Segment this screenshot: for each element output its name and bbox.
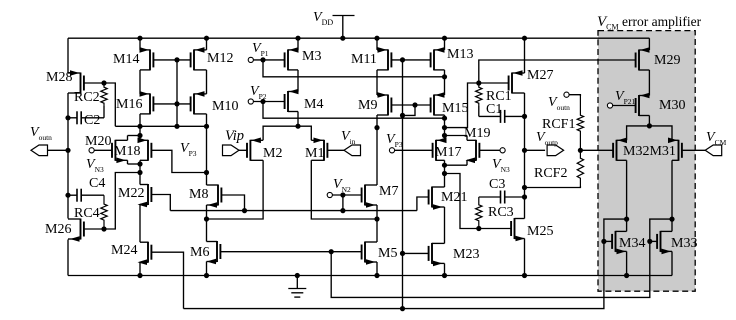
svg-text:VP2: VP2 (250, 84, 267, 101)
svg-text:M32M31: M32M31 (623, 144, 676, 159)
svg-text:M17: M17 (435, 145, 461, 160)
svg-text:M12: M12 (207, 51, 233, 66)
svg-text:M18: M18 (114, 144, 140, 159)
transistor M19 (466, 140, 480, 163)
junction gnd-M24 (137, 273, 142, 278)
svg-text:C3: C3 (489, 177, 505, 192)
wire M21-M23 link (444, 207, 446, 243)
wire M11-M13 gates (392, 59, 430, 61)
transistor M31 (668, 138, 682, 161)
svg-text:VN2: VN2 (333, 177, 351, 194)
svg-text:M28: M28 (46, 70, 72, 85)
transistor M2 (247, 138, 263, 161)
resistor RC1 (476, 85, 482, 107)
wire pair sources (627, 126, 672, 140)
wire M29-M30 (648, 70, 650, 96)
svg-text:M1: M1 (305, 146, 324, 161)
resistor RC2 (101, 85, 107, 107)
wire sense to M32 gate (580, 149, 612, 151)
wire M34 diode loop (604, 219, 627, 241)
svg-text:M34: M34 (619, 236, 645, 251)
svg-text:M11: M11 (351, 52, 377, 67)
wire M2 drain fold (207, 160, 264, 219)
svg-text:M7: M7 (379, 184, 398, 199)
node Voutn (65, 148, 70, 153)
wire M14-M12 gates (154, 59, 190, 61)
wire M19 gate-VN3 (480, 149, 500, 151)
wire M13-M15 cascode (444, 70, 446, 95)
svg-text:M29: M29 (654, 53, 680, 68)
node sense (578, 148, 583, 153)
svg-text:M5: M5 (378, 246, 397, 261)
junction M34 diode (624, 217, 629, 222)
wire pair bottom jumper (128, 163, 141, 165)
svg-text:M24: M24 (111, 243, 137, 258)
node M30 drain (647, 123, 652, 128)
junction RCF2-col (522, 185, 527, 190)
wire M28 drain / Voutn column (67, 93, 69, 219)
node Voutp (522, 148, 527, 153)
junction bottom jumper R (442, 163, 447, 168)
svg-text:C2: C2 (84, 113, 100, 128)
svg-text:RC4: RC4 (74, 206, 100, 221)
svg-text:M21: M21 (441, 190, 467, 205)
junction M18gate-col (204, 170, 209, 175)
junction rail-M12 (204, 36, 209, 41)
junction C3-col (522, 194, 527, 199)
svg-text:M6: M6 (190, 245, 209, 260)
transistor M16 (140, 91, 154, 114)
transistor M10 (191, 91, 207, 114)
node fold left (204, 216, 209, 221)
capacitor C3 (479, 191, 525, 204)
wire M27-M25 outp column (524, 93, 526, 219)
svg-text:M9: M9 (358, 98, 377, 113)
transistor M8 (207, 185, 222, 208)
wire M4 drain-tail (297, 112, 299, 127)
wire M24 gate riser (152, 252, 184, 308)
wire M1 gate-Vin (328, 149, 344, 151)
wire M14-M16 cascode (139, 70, 141, 94)
terminal VP21 (607, 103, 612, 108)
svg-text:VP1: VP1 (252, 41, 269, 58)
svg-text:M33: M33 (671, 236, 697, 251)
node C2-left (65, 115, 70, 120)
wire Voutp (525, 149, 546, 151)
wire M28 gate (84, 82, 104, 84)
resistor RC3 (476, 197, 482, 229)
node tail (295, 124, 300, 129)
wire W2 feedback (184, 241, 604, 308)
wire M26 gate (84, 228, 104, 230)
wire M9-M7 drains (376, 115, 378, 185)
junction ground-rail (295, 273, 300, 278)
wire M26 gate riser to nodeB (104, 173, 140, 230)
VCM error amplifier box (598, 31, 695, 292)
wire VP2 (253, 101, 284, 103)
wire pair bottom jumper R (445, 164, 468, 166)
junction M33 diode (669, 217, 674, 222)
svg-text:M14: M14 (113, 52, 139, 67)
wire M1 drain fold (311, 160, 377, 219)
capacitor C4 (68, 189, 104, 202)
resistor RCF2 (577, 150, 583, 186)
wire M21 gate riser (417, 197, 428, 211)
junction rail-M3 (295, 36, 300, 41)
junction gnd-M23 (442, 273, 447, 278)
junction M23 gate-biasV (400, 251, 405, 256)
wire M27 source-rail (524, 38, 526, 73)
node fold right (374, 216, 379, 221)
transistor M24 (138, 242, 152, 265)
junction VP2wire (442, 116, 447, 121)
transistor M5 (362, 242, 377, 265)
resistor RC4 (101, 195, 107, 229)
node M34 gate (601, 239, 606, 244)
wire Voutn (48, 149, 69, 151)
terminal VN3 left (89, 148, 94, 153)
svg-text:VCM error amplifier: VCM error amplifier (597, 14, 702, 32)
wire M22 gate riser (152, 195, 171, 211)
terminal Vip (223, 145, 240, 156)
junction rail-M27 (522, 36, 527, 41)
transistor M30 (636, 93, 650, 116)
wire M25 gate (479, 228, 511, 230)
transistor M25 (511, 218, 525, 241)
wire M28 gate comp riser (104, 83, 115, 126)
node VP1 (260, 57, 265, 62)
transistor M23 (429, 243, 445, 266)
wire M8 gate riser (222, 195, 245, 211)
junction biasV-W2 (400, 306, 405, 311)
junction nodeA2-col (374, 125, 379, 130)
wire M27-M29 gates (479, 60, 635, 83)
svg-text:M4: M4 (304, 97, 323, 112)
svg-text:VP3: VP3 (180, 141, 197, 158)
wire M3 source-rail (297, 38, 299, 50)
transistor M7 (362, 185, 377, 208)
junction gates row2 (174, 101, 179, 106)
svg-text:RCF2: RCF2 (534, 166, 567, 181)
wire VP3 riser left (176, 60, 178, 126)
wire M22-M24 link (139, 205, 141, 243)
transistor M29 (636, 47, 650, 70)
VDD bar (333, 15, 355, 17)
junction rail-M13 (442, 36, 447, 41)
svg-text:Voutp: Voutp (536, 130, 558, 147)
wire M28 source to rail (67, 38, 69, 73)
wire M33 source-ground (671, 251, 673, 275)
wire M13 source-rail (444, 38, 446, 50)
junction VDD-rail (340, 36, 345, 41)
wire M8-M6 link (206, 205, 208, 242)
junction CMFB riser (329, 249, 334, 254)
transistor M1 (311, 138, 327, 161)
terminal Voutp (547, 145, 564, 156)
junction top jumper (137, 133, 142, 138)
node B right (442, 171, 447, 176)
junction biasV-row2R (400, 113, 405, 118)
svg-text:Vin: Vin (341, 129, 356, 146)
transistor M13 (431, 47, 445, 70)
top VDD rail (68, 37, 649, 39)
wire Voutn sense (569, 95, 580, 96)
svg-text:M8: M8 (189, 187, 208, 202)
svg-text:RC3: RC3 (488, 205, 514, 220)
wire M23 source-ground (444, 263, 446, 275)
transistor M12 (191, 47, 207, 70)
svg-text:VCM: VCM (706, 130, 727, 147)
wire VP3-M17 gate (395, 149, 433, 151)
junction gates row1 R (400, 57, 405, 62)
transistor M28 (68, 70, 84, 93)
transistor M18 (138, 138, 152, 161)
junction gates row1 (174, 57, 179, 62)
capacitor C2 (68, 111, 104, 124)
wire M25 source-ground (524, 239, 526, 276)
transistor M22 (138, 184, 152, 207)
node VN2 (340, 192, 345, 197)
transistor M33 (657, 231, 672, 254)
transistor M20 (112, 140, 128, 163)
wire RCF2 return (525, 186, 581, 188)
wire M31 gate-VCM (682, 149, 705, 151)
transistor M15 (431, 92, 445, 115)
svg-text:Vip: Vip (225, 128, 244, 144)
svg-text:VN3: VN3 (492, 157, 510, 174)
junction rail-M14 (137, 36, 142, 41)
wire M16 drain to pair top (139, 114, 141, 140)
wire M17-M21 link (444, 160, 446, 187)
transistor M14 (140, 47, 154, 70)
node M26 gate (101, 226, 106, 231)
svg-text:M20: M20 (85, 134, 111, 149)
wire M27 gate (479, 82, 508, 84)
svg-text:M23: M23 (453, 247, 479, 262)
transistor M9 (377, 92, 391, 115)
wire row2R bias link (403, 105, 416, 115)
wire M23 gate (403, 252, 429, 254)
capacitor C1 (479, 110, 525, 123)
wire M27 gate to nodeA2 (445, 83, 479, 128)
junction gnd-M34 (624, 273, 629, 278)
terminal VN3 right (500, 148, 505, 153)
transistor M17 (433, 138, 447, 161)
wire VP21-M30 gate (613, 105, 636, 107)
svg-text:VN3: VN3 (86, 157, 104, 174)
junction gnd-M6 (204, 273, 209, 278)
wire M19 bottom stub (466, 160, 468, 165)
junction nodeA-col (204, 124, 209, 129)
wire VN2-M7 gate (332, 194, 361, 196)
transistor M34 (612, 231, 627, 254)
node A left (137, 124, 142, 129)
resistor RCF1 (577, 96, 583, 150)
svg-text:M27: M27 (527, 68, 553, 83)
terminal VP1 (248, 57, 253, 62)
wire M20 bottom stub (127, 160, 129, 164)
wire M34 gate (604, 240, 612, 242)
bottom ground rail (68, 275, 672, 277)
junction gnd-M5 (374, 273, 379, 278)
wire W1 feedback (331, 241, 650, 297)
svg-text:M16: M16 (116, 97, 142, 112)
transistor M32 (613, 138, 627, 161)
svg-text:VDD: VDD (313, 10, 333, 27)
wire Vip-M2 gate (239, 149, 247, 151)
wire VP1 to M13 drain (263, 60, 445, 77)
wire M18-M22 link (139, 160, 141, 184)
svg-text:RCF1: RCF1 (542, 117, 575, 132)
wire RC2-C2 (103, 106, 105, 118)
svg-text:M13: M13 (447, 47, 473, 62)
node M27 gate (476, 80, 481, 85)
terminal VN2 (327, 192, 332, 197)
svg-text:M26: M26 (45, 222, 71, 237)
svg-text:M10: M10 (212, 99, 238, 114)
wire M3-M4 cascode (297, 70, 299, 92)
ground (288, 276, 306, 298)
wire M31-M33 drains (671, 160, 673, 231)
junction top jumper R (442, 133, 447, 138)
wire M14 source-rail (139, 38, 141, 50)
wire M6 source-ground (206, 262, 208, 276)
wire M9-M15 gates (392, 104, 430, 106)
wire M26 source to ground (67, 240, 69, 276)
wire bias vertical (402, 60, 404, 309)
wire tail (263, 126, 311, 140)
node M25 gate (476, 226, 481, 231)
wire VN2 riser (342, 195, 344, 211)
wire M11 source-rail (376, 38, 378, 50)
wire M32-M34 drains (626, 160, 628, 231)
svg-text:M2: M2 (263, 146, 282, 161)
terminal VP2 (248, 99, 253, 104)
svg-text:M30: M30 (659, 98, 685, 113)
wire VP2 to M15 drain (263, 102, 445, 119)
wire M10-M8 drains (206, 114, 208, 185)
wire RC1-C1 (478, 106, 480, 116)
wire VN3-M20 gate (94, 149, 111, 151)
svg-text:M25: M25 (527, 224, 553, 239)
junction VP3-nodeA (174, 124, 179, 129)
terminal Voutn sense (564, 92, 569, 97)
junction M8gate-line1 (242, 208, 247, 213)
svg-text:C1: C1 (486, 102, 502, 117)
wire M16-M10 gates (154, 103, 190, 105)
wire M18 gate to node (152, 150, 207, 172)
wire M19 top stub (466, 136, 468, 141)
svg-text:M15: M15 (442, 101, 468, 116)
terminal Voutn (31, 145, 48, 156)
junction gnd-M25 (522, 273, 527, 278)
node C4-left (65, 193, 70, 198)
terminal VCM (705, 145, 722, 156)
VDD stem (342, 16, 344, 39)
wire M33 diode loop (650, 219, 672, 241)
node VP2 (260, 99, 265, 104)
junction rail-M11 (374, 36, 379, 41)
transistor M26 (68, 219, 84, 242)
wire pair top jumper (128, 135, 141, 137)
wire M12-M10 cascode (206, 70, 208, 94)
wire M30 drain (648, 116, 650, 126)
wire M25gate to nodeB2 (445, 174, 479, 229)
node M28 gate (101, 80, 106, 85)
node B left (137, 170, 142, 175)
svg-text:M3: M3 (302, 49, 321, 64)
wire M15 drain to pair top (444, 115, 446, 140)
wire VN2 line1 (170, 210, 417, 212)
wire M34 source-ground (626, 251, 628, 275)
junction C1-col (522, 114, 527, 119)
transistor M11 (377, 47, 391, 70)
node A right (442, 125, 447, 130)
wire M12 source-rail (206, 38, 208, 50)
transistor M3 (285, 47, 299, 70)
svg-text:C4: C4 (89, 176, 105, 191)
terminal VP3 right (389, 148, 394, 153)
svg-text:VP3: VP3 (386, 132, 403, 149)
wire M5 source-ground (376, 262, 378, 276)
svg-text:RC2: RC2 (74, 90, 100, 105)
junction bottom jumper (137, 161, 142, 166)
junction gates row2 R (412, 102, 417, 107)
transistor M27 (509, 70, 525, 93)
wire M6-M5 gates (221, 251, 361, 253)
terminal Vin (344, 145, 361, 156)
svg-text:M19: M19 (464, 126, 490, 141)
transistor M4 (285, 89, 299, 112)
junction VN2-line1 (340, 208, 345, 213)
transistor M6 (207, 241, 221, 264)
junction VP1wire (442, 74, 447, 79)
wire M11-M9 cascode (376, 70, 378, 95)
svg-text:M22: M22 (118, 186, 144, 201)
wire VP1 (253, 59, 284, 61)
wire M20 top stub (127, 136, 129, 141)
svg-text:Voutn: Voutn (30, 125, 52, 142)
wire node A left (115, 125, 206, 127)
transistor M21 (429, 187, 445, 210)
wire pair top jumper R (445, 135, 468, 137)
wire M24 source-ground (139, 262, 141, 275)
wire M7-M5 link (376, 205, 378, 242)
wire M29 source-rail (648, 38, 650, 50)
wire M33 gate (650, 240, 657, 242)
node M33 gate (647, 239, 652, 244)
